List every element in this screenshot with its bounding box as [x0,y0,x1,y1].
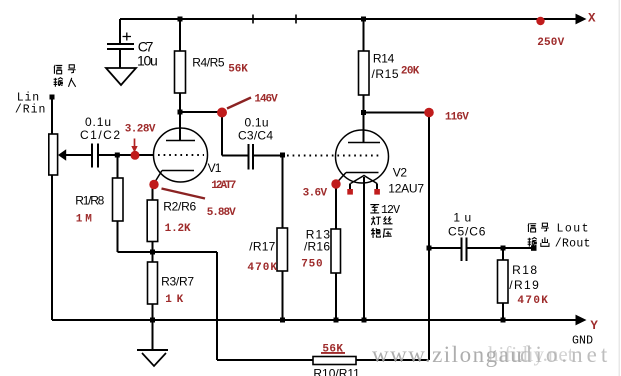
svg-text:GND: GND [572,335,593,348]
svg-text:C3/C4: C3/C4 [238,129,273,143]
svg-text:12AT7: 12AT7 [211,180,236,192]
svg-text:1M: 1M [76,214,92,226]
svg-text:116V: 116V [445,112,469,124]
svg-text:R2/R6: R2/R6 [163,199,196,213]
svg-text:R10/R11: R10/R11 [313,367,360,376]
svg-text:V2: V2 [393,166,408,180]
svg-text:Y: Y [590,319,598,333]
svg-text:V1: V1 [208,161,222,175]
svg-text:750: 750 [301,259,322,271]
svg-text:/R16: /R16 [304,240,330,254]
svg-text:R14: R14 [373,52,395,66]
svg-text:/Rin: /Rin [15,103,46,116]
svg-text:20K: 20K [401,66,420,78]
svg-text:R1/R8: R1/R8 [75,193,104,207]
svg-text:10u: 10u [137,53,158,69]
svg-text:1K: 1K [165,294,183,306]
svg-text:470K: 470K [517,295,548,307]
svg-text:C5/C6: C5/C6 [448,225,486,239]
svg-text:250V: 250V [537,37,564,49]
svg-text:1.2K: 1.2K [165,223,191,235]
svg-text:3.28V: 3.28V [125,124,156,136]
svg-text:/R17: /R17 [249,239,275,253]
svg-text:R3/R7: R3/R7 [161,274,194,288]
svg-text:1u: 1u [453,211,471,225]
svg-text:0.1u: 0.1u [85,115,111,129]
svg-text:3.6V: 3.6V [303,188,328,200]
svg-text:56K: 56K [322,344,343,356]
svg-text:/R15: /R15 [372,67,399,81]
svg-text:5.88V: 5.88V [207,207,236,219]
svg-text:Lout: Lout [557,223,589,236]
svg-text:0.1u: 0.1u [245,116,269,130]
svg-text:/Rout: /Rout [555,238,591,251]
svg-text:hifidiy.net: hifidiy.net [488,342,574,366]
svg-text:12AU7: 12AU7 [388,182,424,196]
svg-text:R18: R18 [512,263,537,277]
svg-text:56K: 56K [228,64,248,76]
svg-text:470K: 470K [247,262,277,274]
svg-text:C1/C2: C1/C2 [80,128,120,142]
svg-text:12V: 12V [381,204,400,217]
svg-text:/R19: /R19 [509,278,539,292]
svg-text:X: X [588,12,596,26]
svg-text:R4/R5: R4/R5 [192,56,225,70]
svg-text:146V: 146V [254,94,278,106]
